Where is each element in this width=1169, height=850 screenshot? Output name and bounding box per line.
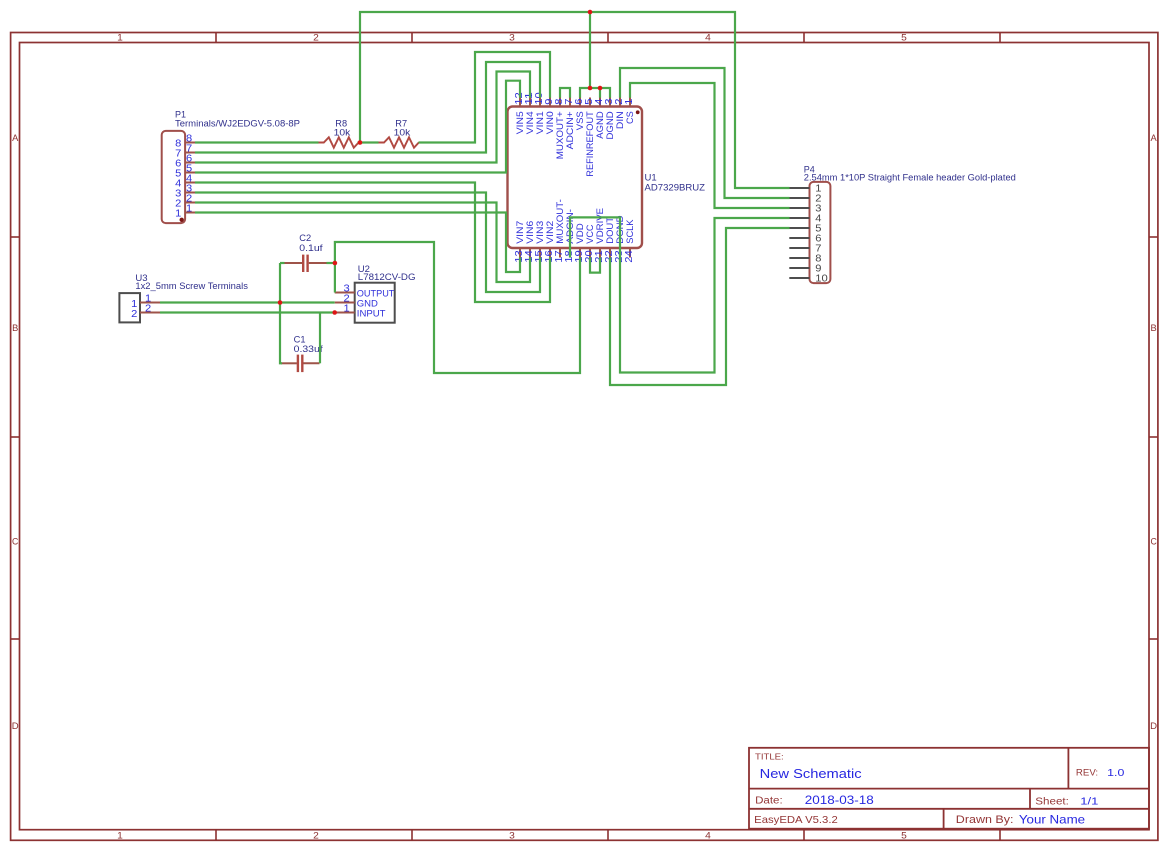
svg-text:Terminals/WJ2EDGV-5.08-8P: Terminals/WJ2EDGV-5.08-8P	[175, 118, 300, 128]
svg-text:MUXOUT+: MUXOUT+	[555, 111, 565, 159]
svg-text:A: A	[12, 133, 18, 143]
svg-text:GND: GND	[357, 298, 378, 308]
svg-text:10k: 10k	[334, 127, 351, 137]
svg-text:2: 2	[313, 33, 319, 43]
svg-text:MUXOUT-: MUXOUT-	[555, 199, 565, 244]
svg-text:VIN3: VIN3	[535, 221, 545, 244]
svg-text:VIN7: VIN7	[515, 221, 525, 244]
svg-text:VIN6: VIN6	[525, 221, 535, 244]
svg-text:DOUT: DOUT	[605, 217, 615, 244]
svg-text:OUTPUT: OUTPUT	[357, 288, 395, 298]
svg-text:Drawn By:: Drawn By:	[956, 814, 1014, 826]
svg-text:D: D	[1150, 721, 1157, 731]
svg-text:VDRIVE: VDRIVE	[595, 208, 605, 244]
svg-text:1: 1	[186, 204, 192, 215]
svg-text:D: D	[12, 721, 19, 731]
svg-text:B: B	[1151, 323, 1157, 333]
svg-text:AGND: AGND	[595, 111, 605, 139]
svg-text:0.33uf: 0.33uf	[294, 344, 324, 354]
svg-text:1: 1	[344, 304, 350, 315]
svg-text:Your Name: Your Name	[1019, 812, 1086, 826]
svg-text:CS: CS	[625, 111, 635, 124]
svg-text:B: B	[12, 323, 18, 333]
svg-text:5: 5	[901, 831, 907, 841]
svg-text:1: 1	[624, 99, 635, 105]
svg-text:VSS: VSS	[575, 111, 585, 130]
svg-text:VIN2: VIN2	[545, 221, 555, 244]
svg-text:C2: C2	[299, 233, 311, 243]
svg-text:3: 3	[509, 33, 515, 43]
svg-text:2: 2	[313, 831, 319, 841]
svg-text:EasyEDA V5.3.2: EasyEDA V5.3.2	[754, 815, 838, 826]
svg-text:New Schematic: New Schematic	[760, 766, 862, 781]
svg-text:VIN4: VIN4	[525, 111, 535, 134]
svg-text:Date:: Date:	[755, 796, 783, 807]
svg-text:L7812CV-DG: L7812CV-DG	[358, 272, 416, 282]
svg-text:4: 4	[705, 831, 711, 841]
svg-text:REFINREFOUT: REFINREFOUT	[585, 111, 595, 177]
svg-text:2: 2	[131, 309, 137, 320]
svg-text:VCC: VCC	[585, 224, 595, 243]
svg-text:5: 5	[901, 33, 907, 43]
svg-text:DGND: DGND	[605, 111, 615, 140]
svg-text:VDD: VDD	[575, 223, 585, 244]
svg-text:1.0: 1.0	[1107, 767, 1124, 779]
svg-text:10: 10	[815, 273, 828, 284]
svg-text:VIN5: VIN5	[515, 111, 525, 134]
svg-text:C: C	[1150, 537, 1157, 547]
svg-text:Sheet:: Sheet:	[1035, 796, 1069, 807]
svg-text:U1: U1	[645, 172, 657, 182]
svg-text:1/1: 1/1	[1080, 796, 1098, 808]
svg-text:3: 3	[509, 831, 515, 841]
svg-text:C: C	[12, 537, 19, 547]
svg-text:VIN1: VIN1	[535, 111, 545, 134]
svg-text:INPUT: INPUT	[357, 308, 386, 318]
svg-text:1: 1	[175, 209, 181, 220]
svg-text:4: 4	[705, 33, 711, 43]
svg-text:DIN: DIN	[615, 111, 625, 129]
svg-text:A: A	[1151, 133, 1157, 143]
svg-text:ADCIN+: ADCIN+	[565, 111, 575, 149]
svg-text:0.1uf: 0.1uf	[299, 243, 323, 253]
svg-text:TITLE:: TITLE:	[755, 752, 784, 762]
svg-text:1x2_5mm Screw Terminals: 1x2_5mm Screw Terminals	[135, 281, 248, 291]
svg-text:VIN0: VIN0	[545, 111, 555, 134]
svg-text:2.54mm 1*10P Straight Female h: 2.54mm 1*10P Straight Female header Gold…	[804, 172, 1016, 182]
svg-text:SCLK: SCLK	[625, 219, 635, 244]
svg-text:1: 1	[117, 831, 123, 841]
svg-text:AD7329BRUZ: AD7329BRUZ	[645, 182, 706, 192]
svg-text:REV:: REV:	[1076, 767, 1098, 777]
svg-text:1: 1	[117, 33, 123, 43]
svg-text:2018-03-18: 2018-03-18	[805, 795, 874, 807]
svg-text:24: 24	[624, 250, 635, 263]
svg-text:10k: 10k	[394, 127, 411, 137]
svg-text:2: 2	[145, 304, 151, 315]
svg-text:C1: C1	[294, 335, 306, 345]
